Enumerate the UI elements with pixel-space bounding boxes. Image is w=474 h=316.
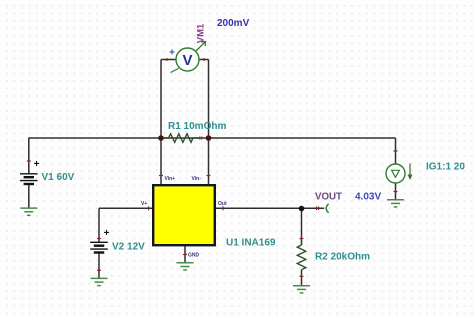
svg-text:V: V — [182, 52, 192, 69]
svg-text:V1 60V: V1 60V — [42, 172, 75, 183]
svg-text:+: + — [104, 228, 110, 239]
svg-text:VOUT: VOUT — [315, 192, 342, 203]
svg-text:+: + — [169, 48, 175, 59]
svg-text:R2 20kOhm: R2 20kOhm — [315, 252, 370, 263]
svg-text:Vin+: Vin+ — [165, 176, 176, 182]
svg-text:4.03V: 4.03V — [355, 192, 381, 203]
svg-text:IG1:1 20: IG1:1 20 — [426, 162, 465, 173]
svg-text:VM1: VM1 — [196, 23, 207, 43]
svg-text:V2 12V: V2 12V — [112, 242, 145, 253]
svg-text:Out: Out — [218, 201, 227, 207]
svg-text:V+: V+ — [141, 201, 147, 207]
svg-text:200mV: 200mV — [217, 18, 250, 29]
svg-text:U1 INA169: U1 INA169 — [226, 238, 276, 249]
svg-text:R1 10mOhm: R1 10mOhm — [168, 121, 226, 132]
svg-text:+: + — [34, 159, 40, 170]
svg-text:GND: GND — [188, 253, 200, 259]
svg-text:Vin-: Vin- — [192, 176, 202, 182]
